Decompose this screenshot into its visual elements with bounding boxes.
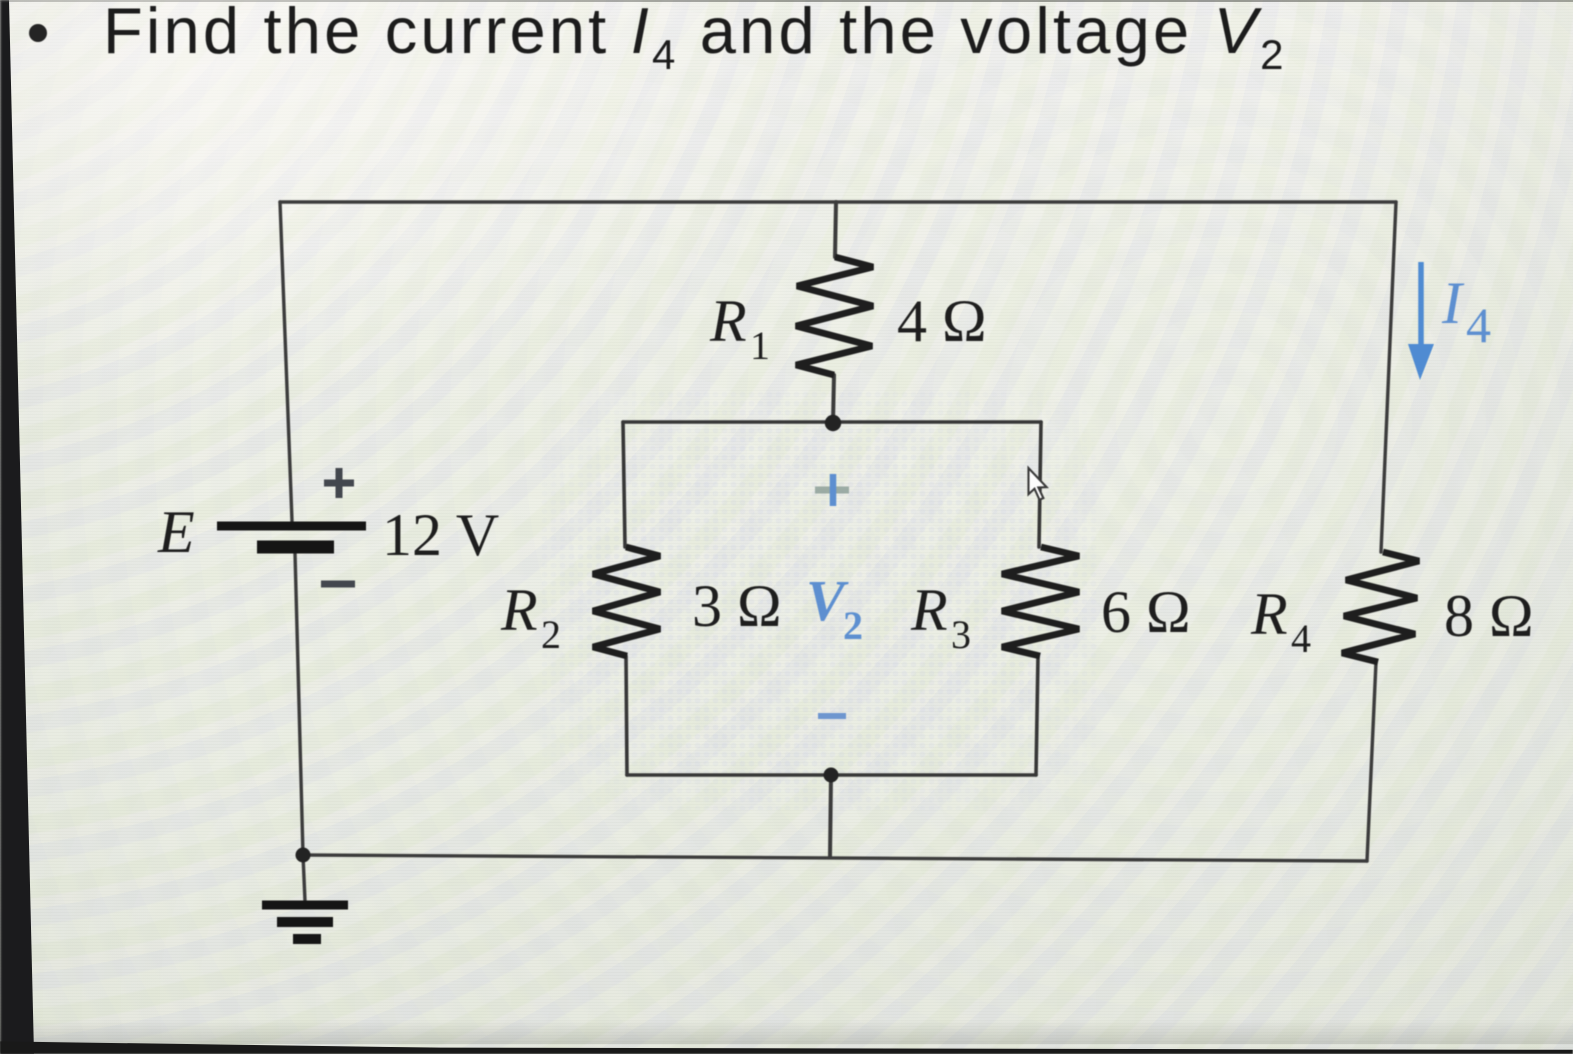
svg-text:8 Ω: 8 Ω — [1444, 583, 1534, 649]
svg-text:12 V: 12 V — [382, 502, 499, 568]
svg-text:3 Ω: 3 Ω — [692, 573, 782, 639]
svg-text:2: 2 — [541, 612, 561, 657]
svg-text:4: 4 — [1291, 616, 1311, 661]
svg-text:E: E — [157, 499, 195, 565]
svg-text:Find the current I4 and the vo: Find the current I4 and the voltage V2 — [103, 0, 1287, 78]
svg-text:R: R — [910, 577, 948, 643]
svg-text:R: R — [709, 288, 747, 354]
svg-text:3: 3 — [951, 612, 971, 657]
svg-text:R: R — [500, 577, 538, 643]
svg-text:I: I — [1441, 270, 1465, 336]
svg-text:6 Ω: 6 Ω — [1101, 579, 1191, 645]
svg-text:4 Ω: 4 Ω — [897, 288, 987, 354]
svg-text:4: 4 — [1466, 297, 1491, 353]
svg-text:2: 2 — [843, 603, 863, 648]
svg-text:R: R — [1250, 581, 1288, 647]
svg-text:1: 1 — [750, 323, 770, 368]
